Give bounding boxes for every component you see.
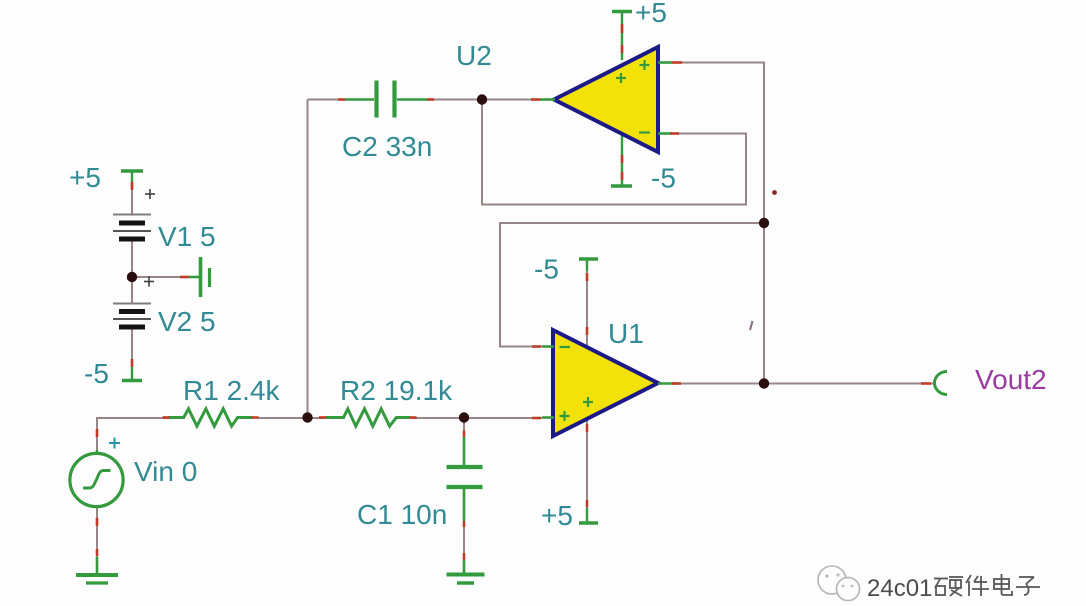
svg-text:V2 5: V2 5 <box>158 306 216 337</box>
tick C1 top <box>463 431 466 438</box>
wire: U1 bottom power stem <box>586 419 588 522</box>
tick R2 right <box>410 416 417 419</box>
svg-text:-5: -5 <box>534 254 559 285</box>
power -5 T-bar (U1 top) <box>579 259 598 271</box>
tick U1 output <box>672 382 681 385</box>
svg-text:+5: +5 <box>69 162 101 193</box>
svg-text:R2 19.1k: R2 19.1k <box>340 375 453 406</box>
tick U1 minus input <box>532 345 541 348</box>
tick Vin bottom upper <box>96 518 99 526</box>
node C junction dot (U2 output/C2) <box>477 94 487 104</box>
wire: C2 branch vertical from node A up <box>307 100 309 419</box>
battery V2 <box>113 304 151 328</box>
tick U2 top power lower <box>621 45 624 53</box>
tick U1 bottom power lower <box>586 500 589 507</box>
battery V1 plus polarity mark <box>145 189 155 199</box>
wire: main horizontal net y=418 segment Vin corner to R1 <box>97 418 170 454</box>
wire: U1 output to node E to Vout2 terminal <box>676 383 933 385</box>
power -5 T-bar (battery bottom) <box>122 366 142 381</box>
op-amp U2 pin + mark <box>640 60 650 70</box>
battery V1 <box>113 215 151 240</box>
op-amp U1 pin + mark <box>560 411 570 421</box>
wire: node F to mid ground <box>132 276 190 278</box>
terminal Vout2 (green hook) <box>934 372 947 395</box>
op-amp U1 inner + mark <box>583 397 593 407</box>
node E junction dot (U1 output rail) <box>759 378 769 388</box>
tick battery bottom <box>131 359 134 367</box>
node A junction dot (R1/R2/C2) <box>302 412 312 422</box>
op-amp U1 (pointing right) <box>542 330 677 436</box>
svg-text:24c01: 24c01 <box>867 575 932 601</box>
svg-text:V1 5: V1 5 <box>158 221 216 252</box>
wire: R1 to node A <box>258 417 308 419</box>
stray tick mark <box>750 321 753 330</box>
tick mid ground <box>180 276 189 279</box>
power +5 T-bar (U2 top) <box>612 10 632 13</box>
op-amp U2 inner + mark <box>616 73 626 83</box>
svg-text:-5: -5 <box>84 358 109 389</box>
svg-text:+5: +5 <box>541 500 573 531</box>
tick Vout2 terminal <box>921 382 931 385</box>
wire: V1 to node F <box>131 239 133 277</box>
power -5 T-bar (U2 bottom) <box>611 184 632 187</box>
capacitor C1 <box>447 437 483 521</box>
wire: C1 node B down <box>463 418 465 440</box>
watermark logo (chat bubbles) <box>818 566 860 601</box>
tick U2 output <box>531 98 540 101</box>
wire: U1 top power stem <box>586 261 588 347</box>
power +5 T-bar (battery top) <box>121 171 143 189</box>
wire: node D to U1 inverting input <box>500 223 764 347</box>
svg-text:C1 10n: C1 10n <box>357 499 447 530</box>
svg-text:U2: U2 <box>456 40 492 71</box>
source Vin plus polarity mark <box>109 438 120 449</box>
tick U1 top power lower <box>586 327 589 335</box>
wire: U2 bottom power stem <box>621 134 623 185</box>
ground (C1) <box>447 560 485 583</box>
tick C1 bottom upper <box>463 521 466 527</box>
svg-text:R1 2.4k: R1 2.4k <box>183 375 280 406</box>
pin tick marks (red) <box>97 24 931 560</box>
tick U2 bottom power lower <box>621 172 624 180</box>
wire: U2 top power stem <box>621 13 623 60</box>
tick U2 plus input <box>672 61 682 64</box>
tick U2 bottom power upper <box>621 155 624 163</box>
power +5 T-bar (U1 bottom) <box>579 508 598 523</box>
wire: right rail node D to node E <box>763 223 765 384</box>
wire: C2 left lead horizontal <box>308 99 341 101</box>
ground (battery midpoint, sideways) <box>189 257 210 297</box>
wire: V2 to -5 T-bar <box>131 327 133 370</box>
source Vin (circle with step curve) <box>70 450 123 507</box>
node D junction dot (feedback rail) <box>759 218 769 228</box>
op-amp U1 pin - mark <box>560 346 571 348</box>
wire: U2 plus input to right rail <box>671 63 764 224</box>
tick U2 top power upper <box>621 24 624 33</box>
watermark CJK characters <box>934 574 1040 596</box>
wire: C2 right to node C (U2 output) <box>433 99 483 101</box>
svg-text:+5: +5 <box>635 0 667 28</box>
ground (Vin) <box>76 557 118 583</box>
wire: node F to V2 <box>131 277 133 304</box>
tick C2 right <box>427 98 434 101</box>
tick C2 left <box>338 98 345 101</box>
tick Vin bottom lower <box>96 549 99 556</box>
wire: U2 feedback rectangle <box>482 100 746 205</box>
node F junction dot (battery midpoint) <box>127 272 137 282</box>
wire: C1 bottom to ground <box>463 521 465 560</box>
node B junction dot (R2/C1) <box>459 412 469 422</box>
stray red dot <box>772 190 777 195</box>
wire: R2 to node B to U1 plus input <box>411 417 542 419</box>
wire: node A to R2 <box>308 417 333 419</box>
tick U1 plus input <box>532 417 541 420</box>
svg-text:Vout2: Vout2 <box>975 364 1047 395</box>
wire: U2 output lead to node C <box>483 99 541 101</box>
tick battery top <box>131 182 134 190</box>
tick R2 left <box>319 416 326 419</box>
resistor R1 <box>168 409 253 426</box>
svg-text:C2 33n: C2 33n <box>342 131 432 162</box>
tick U1 bottom power upper <box>586 424 589 432</box>
op-amp U2 (pointing left) <box>540 47 672 152</box>
battery V2 plus polarity mark <box>144 277 154 287</box>
tick U2 minus input <box>670 132 679 135</box>
tick R1 right <box>252 416 259 419</box>
tick Vin top <box>96 429 99 437</box>
tick R1 left <box>163 416 170 419</box>
svg-text:U1: U1 <box>608 318 644 349</box>
capacitor C2 <box>345 81 427 118</box>
svg-text:Vin 0: Vin 0 <box>134 456 197 487</box>
wire: battery top T-bar to V1 <box>131 173 133 214</box>
op-amp U2 pin - mark <box>639 131 650 133</box>
tick C1 bottom lower <box>463 553 466 560</box>
resistor R2 <box>325 409 410 426</box>
wire: Vin circle bottom to ground <box>96 508 98 560</box>
tick U1 top power <box>586 273 589 281</box>
svg-text:-5: -5 <box>651 163 676 194</box>
